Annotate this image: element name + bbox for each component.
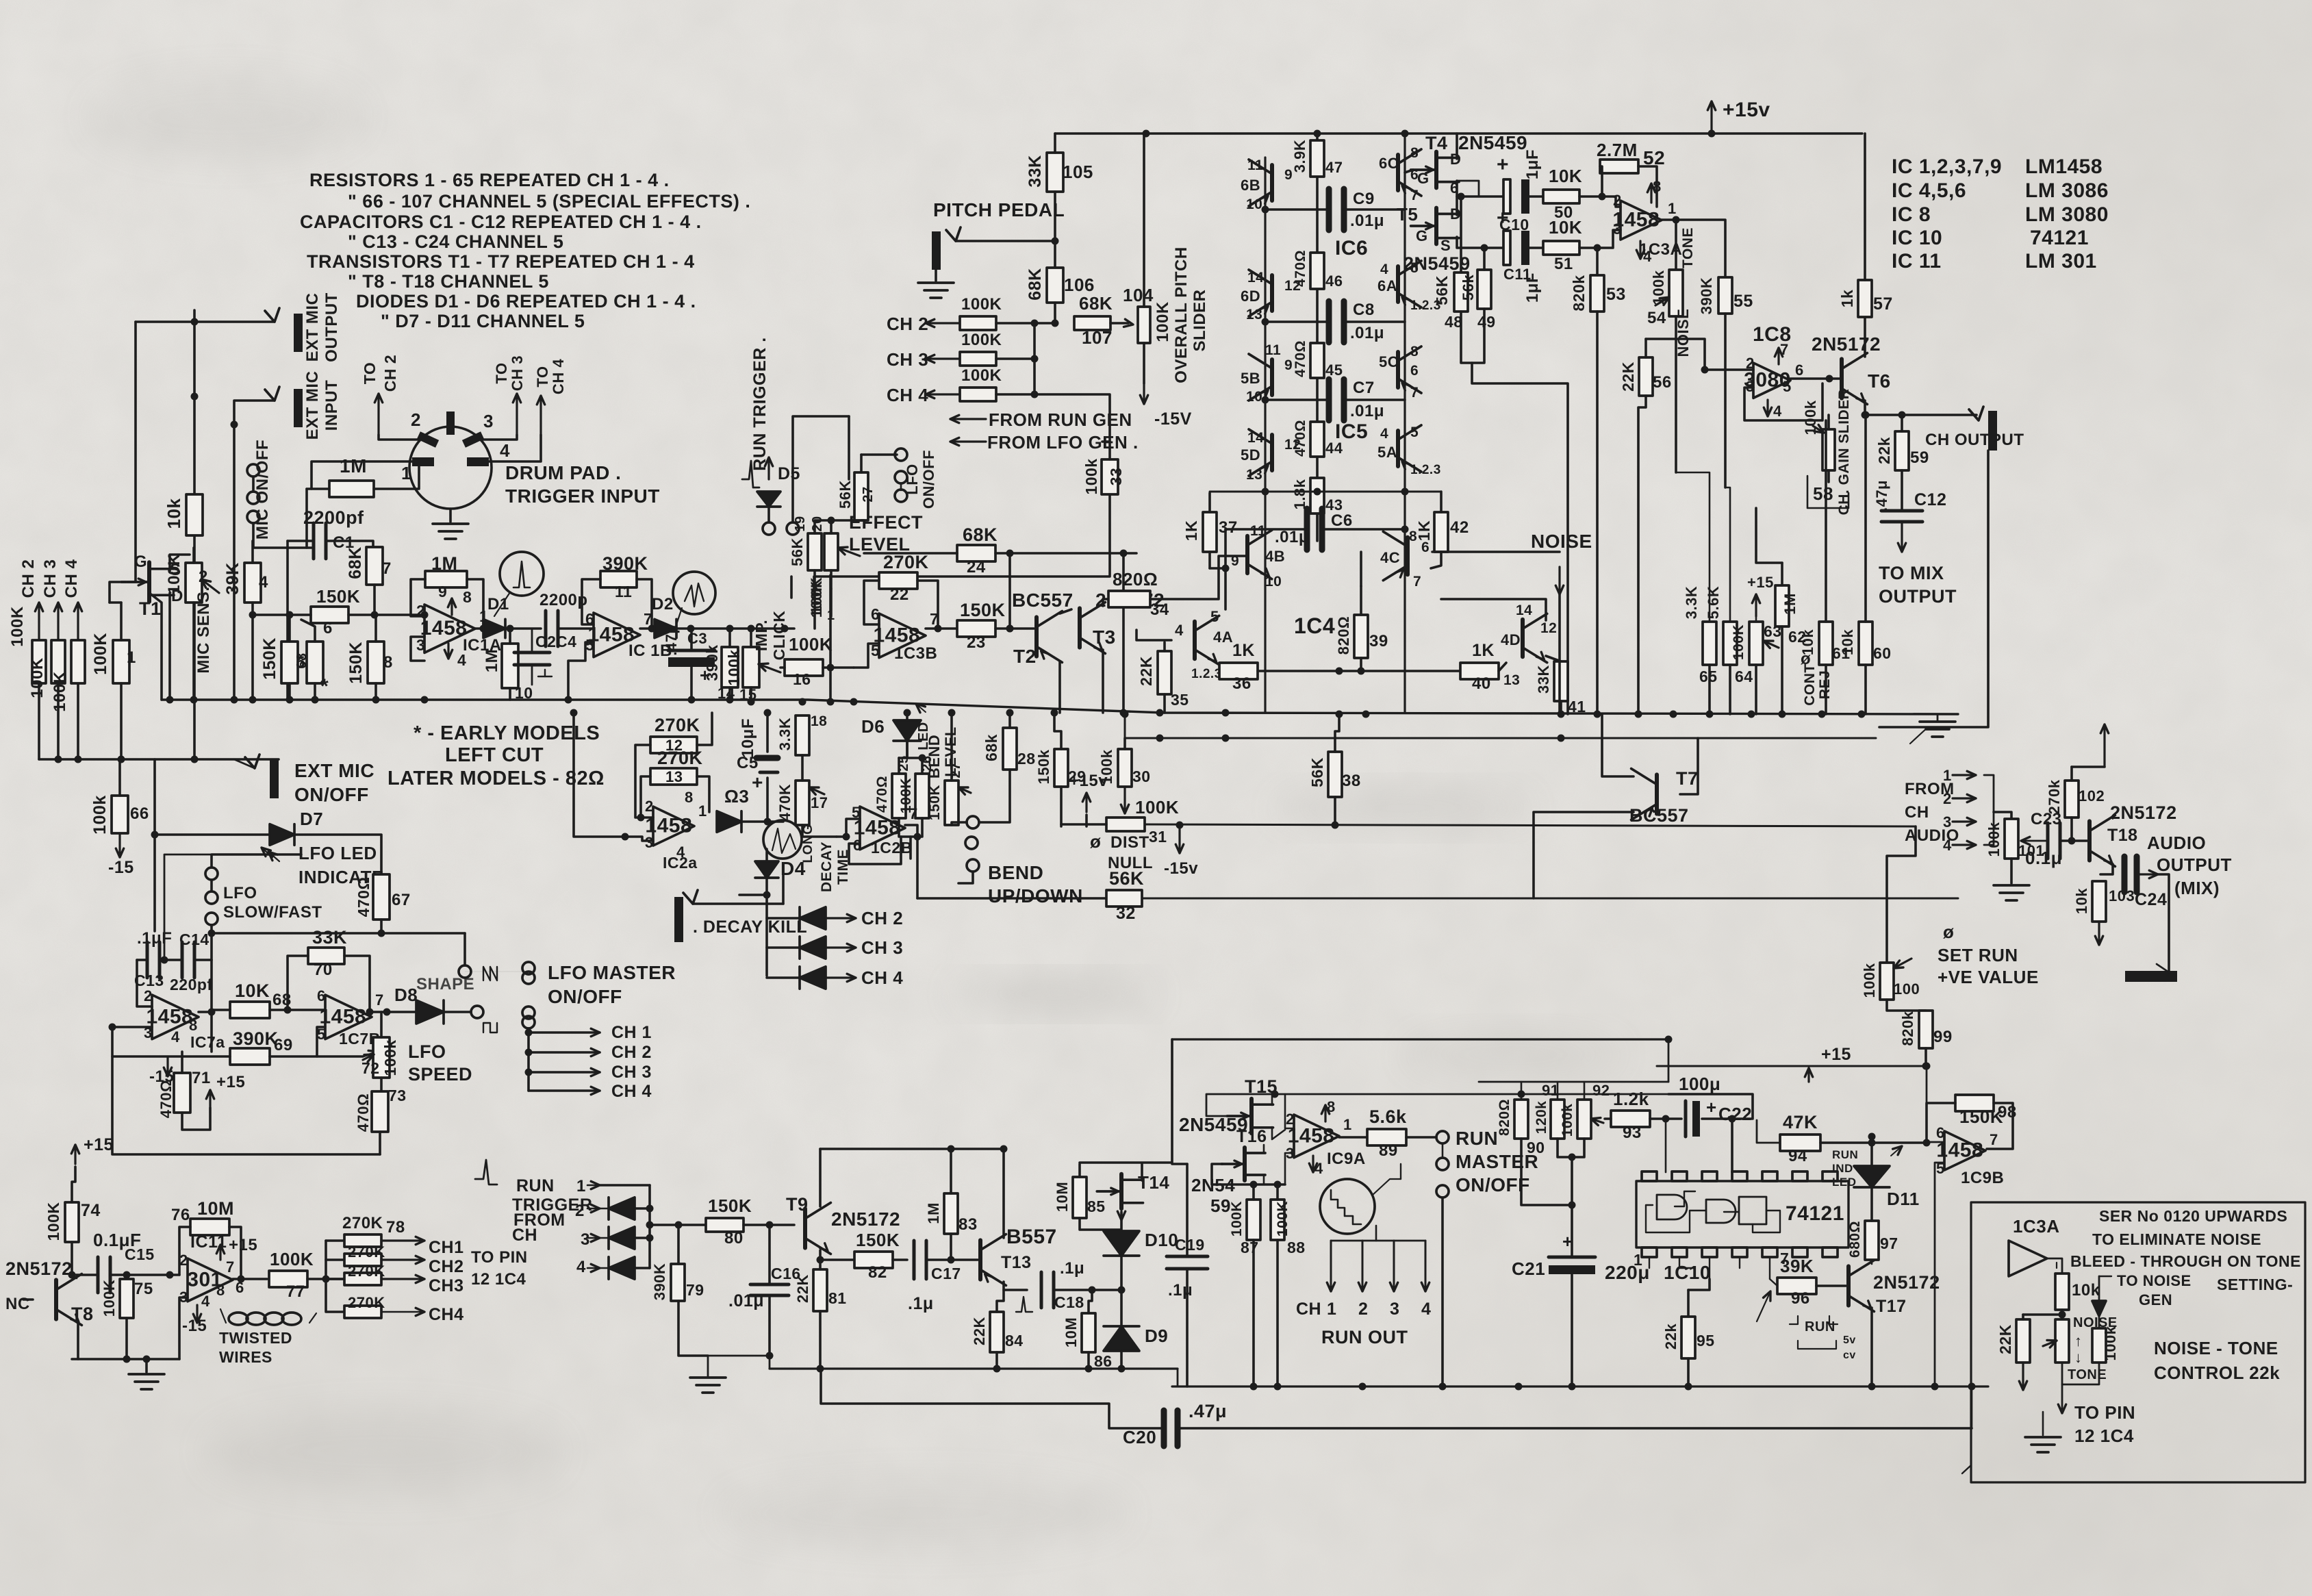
svg-text:100K: 100K — [1154, 301, 1172, 342]
wire ch fanout — [527, 1028, 530, 1091]
wire T16 — [1263, 1145, 1265, 1153]
svg-text:94: 94 — [1788, 1147, 1807, 1165]
wire 82 out — [893, 1258, 907, 1261]
resistor 22K 81 — [813, 1269, 827, 1311]
svg-text:T5: T5 — [1397, 204, 1418, 225]
svg-text:5: 5 — [585, 636, 594, 654]
wire 390K11 loop — [582, 579, 600, 624]
pot 100K 54 tone — [1669, 270, 1683, 316]
svg-text:IC7a: IC7a — [190, 1033, 225, 1051]
resistor 150K 8 — [368, 642, 384, 683]
svg-text:0.1μ: 0.1μ — [2025, 848, 2062, 868]
capacitor C9 — [1326, 189, 1332, 230]
svg-text:IC9A: IC9A — [1327, 1150, 1366, 1168]
svg-text:C24: C24 — [2135, 890, 2167, 909]
wire 102 — [2070, 767, 2073, 781]
wire 77 out — [307, 1278, 344, 1280]
wire D10 down — [1120, 1256, 1123, 1326]
op-amp IC7B — [325, 995, 372, 1039]
resistor 150K 6 — [311, 607, 348, 623]
transistor 6D — [1270, 275, 1274, 311]
svg-text:49: 49 — [1477, 313, 1496, 331]
svg-text:100k: 100k — [1861, 963, 1878, 998]
svg-text:13: 13 — [665, 768, 683, 785]
wire IC1B in5 — [568, 642, 594, 700]
wire IC3B out — [926, 627, 957, 630]
svg-text:66: 66 — [130, 805, 149, 823]
diode D11 run ind led — [1854, 1166, 1890, 1187]
svg-text:LM 301: LM 301 — [2025, 250, 2097, 273]
resistor 39K 4 — [244, 563, 261, 603]
pot 100K 104 overall pitch — [1138, 307, 1150, 343]
svg-text:100K: 100K — [51, 671, 69, 712]
transistor 4D — [1521, 620, 1525, 657]
svg-text:.47µ: .47µ — [663, 624, 680, 655]
svg-text:ON/OFF: ON/OFF — [548, 986, 622, 1007]
svg-text:G: G — [134, 553, 147, 571]
resistor 1M mic — [329, 481, 374, 497]
svg-text:100: 100 — [1894, 980, 1920, 998]
svg-text:5B: 5B — [1241, 370, 1260, 387]
wire 41 down — [1560, 701, 1562, 714]
svg-text:B557: B557 — [1006, 1226, 1057, 1248]
wire 39 top — [1360, 552, 1362, 586]
wire T18 emit — [2100, 864, 2113, 874]
wire T15 — [1271, 1094, 1273, 1105]
wire T1 source — [170, 555, 190, 571]
wire C20 line — [821, 1369, 1163, 1428]
wire 54 down — [1675, 316, 1677, 472]
svg-text:33K: 33K — [312, 927, 347, 948]
wire decay kill — [693, 902, 783, 905]
wire IC8 in — [1705, 368, 1753, 371]
resistor 100K 66 — [112, 796, 128, 833]
svg-text:10k: 10k — [2072, 1281, 2100, 1300]
jack ch output — [1969, 407, 1983, 420]
svg-text:37: 37 — [1219, 518, 1238, 537]
resistor 2.7M 52 — [1600, 160, 1638, 173]
capacitor C2 — [514, 651, 550, 655]
wire C24 out — [2139, 873, 2158, 875]
resistor 10M 86 — [1082, 1313, 1095, 1352]
svg-text:CH 4: CH 4 — [611, 1082, 652, 1101]
wire IC1B out — [640, 627, 652, 630]
svg-text:87: 87 — [1241, 1239, 1259, 1256]
wire IC9A out — [1339, 1136, 1367, 1139]
transistor 5A — [1396, 431, 1400, 466]
svg-text:4B: 4B — [1265, 548, 1285, 565]
svg-text:150K: 150K — [260, 637, 279, 680]
svg-text:1: 1 — [698, 802, 707, 820]
resistor 5.6k 89 — [1367, 1129, 1406, 1145]
IC 74121 gate A — [1657, 1195, 1687, 1219]
svg-text:5.6k: 5.6k — [1369, 1106, 1407, 1127]
wire left gate rail — [127, 322, 136, 582]
svg-text:T13: T13 — [1001, 1253, 1032, 1272]
svg-text:IC 1,2,3,7,9: IC 1,2,3,7,9 — [1892, 155, 2002, 178]
svg-text:+15: +15 — [216, 1073, 245, 1091]
svg-text:CAPACITORS C1 - C12 REPEATED: CAPACITORS C1 - C12 REPEATED CH 1 - 4 . — [300, 212, 702, 232]
wire T3 coll — [1103, 599, 1108, 606]
svg-text:TO ELIMINATE NOISE: TO ELIMINATE NOISE — [2092, 1230, 2261, 1248]
svg-text:1.8k: 1.8k — [1291, 479, 1308, 509]
svg-text:TONE: TONE — [2068, 1367, 2107, 1382]
pot 100K 63 — [1749, 622, 1763, 665]
svg-text:89: 89 — [1379, 1141, 1398, 1160]
capacitor C21 220u — [1549, 1256, 1595, 1259]
svg-text:820k: 820k — [1570, 275, 1588, 311]
svg-text:34: 34 — [1150, 600, 1169, 619]
svg-text:68: 68 — [294, 653, 309, 668]
svg-text:4A: 4A — [1213, 629, 1233, 646]
svg-text:6: 6 — [1795, 362, 1804, 379]
svg-text:ON/OFF: ON/OFF — [920, 450, 937, 509]
wire T17 coll — [1871, 1260, 1873, 1264]
svg-text:150K: 150K — [927, 785, 943, 820]
wire top rail — [1055, 132, 1862, 134]
svg-text:+15: +15 — [1821, 1045, 1851, 1064]
svg-text:71: 71 — [192, 1069, 211, 1087]
svg-text:22: 22 — [890, 585, 909, 604]
resistor 470 44 — [1310, 422, 1324, 457]
resistor 100K 75 — [120, 1279, 134, 1318]
svg-text:C19: C19 — [1175, 1236, 1205, 1254]
svg-text:1458: 1458 — [873, 624, 920, 646]
resistor 1K 40 — [1460, 663, 1499, 679]
wire 1M9 loop — [411, 579, 425, 615]
wire bottom rail2 left — [1177, 1369, 1179, 1386]
svg-text:10k: 10k — [164, 498, 184, 529]
svg-text:13: 13 — [1246, 467, 1262, 483]
svg-text:T4: T4 — [1425, 133, 1448, 153]
svg-text:1μF: 1μF — [1523, 273, 1542, 303]
wire 30 — [1123, 738, 1126, 749]
jack decay kill — [674, 897, 683, 942]
op-amp 1C3A box — [2009, 1241, 2047, 1276]
svg-text:220pf: 220pf — [170, 976, 213, 993]
paper smudge 3 — [205, 1410, 561, 1493]
wire T7 base — [1680, 738, 1698, 794]
resistor 1K 37 — [1203, 512, 1217, 552]
svg-text:39K: 39K — [223, 562, 242, 594]
svg-text:NC: NC — [5, 1295, 30, 1313]
svg-text:D6: D6 — [861, 716, 885, 737]
wire 150K6 — [253, 613, 311, 616]
svg-text:CH 1: CH 1 — [611, 1023, 652, 1042]
svg-text:-15: -15 — [108, 858, 134, 877]
svg-text:3: 3 — [581, 1230, 590, 1249]
wire 39 — [1360, 586, 1362, 615]
svg-text:C12: C12 — [1914, 490, 1946, 509]
svg-text:LFO LED: LFO LED — [298, 843, 377, 863]
svg-text:74121: 74121 — [1786, 1202, 1844, 1225]
svg-text:LFO: LFO — [408, 1041, 446, 1062]
svg-text:LFO: LFO — [904, 464, 921, 495]
svg-text:1C4: 1C4 — [1294, 613, 1335, 638]
svg-text:1M: 1M — [925, 1202, 942, 1224]
svg-text:470Ω: 470Ω — [355, 1093, 372, 1132]
resistor 1M 83 — [944, 1193, 958, 1234]
svg-text:T3: T3 — [1093, 626, 1116, 648]
svg-text:270K: 270K — [342, 1214, 383, 1232]
resistor 39K 96 — [1777, 1278, 1816, 1294]
wire 98 top — [1926, 1066, 1928, 1103]
pot 100K 15 — [743, 647, 759, 687]
wire IC7B in5 — [317, 1027, 325, 1056]
svg-text:59: 59 — [1910, 448, 1929, 467]
svg-text:↑: ↑ — [2074, 1332, 2083, 1350]
pot 150K 27b — [945, 781, 958, 825]
wire T7 emit — [1534, 812, 1634, 898]
svg-text:10M: 10M — [1063, 1317, 1080, 1347]
svg-text:D: D — [1450, 151, 1461, 168]
resistor 10K 51 — [1543, 241, 1579, 255]
svg-text:32: 32 — [1116, 904, 1136, 923]
svg-text:7: 7 — [375, 991, 384, 1009]
transistor 5B — [1270, 359, 1274, 395]
op-amp IC3A — [1621, 201, 1662, 240]
IC 74121 inner wires — [1646, 1205, 1706, 1232]
svg-text:75: 75 — [134, 1280, 153, 1298]
terminal D5 — [763, 522, 775, 535]
svg-text:4: 4 — [1421, 1300, 1431, 1319]
wire D7 out — [294, 835, 381, 874]
capacitor C10 1uF — [1503, 179, 1510, 214]
svg-text:20: 20 — [810, 516, 825, 531]
resistor 1.2k 93 — [1611, 1111, 1650, 1127]
ground T8 — [129, 1373, 164, 1376]
wire 470-71 — [181, 1052, 183, 1073]
svg-text:+15: +15 — [84, 1135, 114, 1154]
wire 820-34 — [1150, 556, 1247, 599]
IC 74121 body — [1636, 1181, 1849, 1247]
svg-text:MIC SENS.: MIC SENS. — [194, 586, 213, 673]
svg-text:TWISTED: TWISTED — [219, 1329, 292, 1347]
svg-text:10μF: 10μF — [739, 718, 757, 758]
resistor 820k 99 — [1919, 1011, 1933, 1048]
svg-text:820k: 820k — [1899, 1011, 1916, 1046]
svg-text:100k: 100k — [1082, 458, 1100, 494]
wire IC2a in3 — [625, 837, 653, 841]
wire run master down — [1441, 1198, 1444, 1386]
IC 74121 top pins — [1642, 1171, 1657, 1181]
svg-text:100k: 100k — [2102, 1326, 2119, 1360]
wire eff level top — [848, 416, 850, 479]
svg-text:1458: 1458 — [420, 617, 468, 639]
svg-text:1C10: 1C10 — [1664, 1262, 1711, 1283]
diode D10 — [1104, 1231, 1139, 1256]
svg-text:12 1C4: 12 1C4 — [471, 1270, 526, 1289]
wire bottom-left rail — [39, 758, 279, 761]
svg-text:100K: 100K — [808, 581, 825, 618]
transistor 6C — [1396, 155, 1400, 190]
svg-text:104: 104 — [1123, 285, 1154, 305]
transistor 6B — [1270, 165, 1274, 201]
wire C1 — [288, 540, 314, 542]
svg-text:(MIX): (MIX) — [2174, 878, 2220, 898]
wire T14 — [1141, 1164, 1143, 1180]
svg-text:18: 18 — [811, 713, 827, 729]
wire D2 out — [676, 627, 794, 630]
svg-text:8: 8 — [1410, 344, 1419, 359]
svg-text:CH 4: CH 4 — [887, 385, 928, 405]
IC 74121 bottom pins — [1642, 1247, 1657, 1257]
svg-text:79: 79 — [686, 1281, 704, 1299]
resistor 100K 33 — [1102, 459, 1118, 494]
wire 55 down — [1724, 314, 1727, 487]
svg-text:LONG: LONG — [801, 824, 815, 863]
resistor 22K 56 — [1639, 357, 1653, 396]
svg-text:33K: 33K — [1535, 665, 1552, 694]
svg-text:150K: 150K — [960, 600, 1006, 620]
svg-text:1: 1 — [1327, 1300, 1336, 1319]
svg-text:102: 102 — [2079, 787, 2105, 805]
wire T1 gate — [110, 582, 126, 603]
wire pot104 — [1143, 134, 1145, 307]
wire 4A base — [1136, 630, 1171, 640]
diode D4 — [755, 861, 778, 878]
svg-text:C14: C14 — [179, 930, 209, 948]
wire 62 top — [1756, 508, 1782, 563]
svg-text:680Ω: 680Ω — [1847, 1221, 1863, 1258]
svg-text:DIST: DIST — [1110, 833, 1149, 852]
svg-text:D8: D8 — [394, 985, 418, 1005]
svg-text:6: 6 — [323, 619, 333, 637]
svg-text:+VE VALUE: +VE VALUE — [1938, 967, 2039, 987]
wire run top rail2 drop — [1080, 1039, 1172, 1163]
svg-text:22K: 22K — [1619, 362, 1637, 392]
svg-text:3: 3 — [1390, 1300, 1399, 1319]
svg-text:PITCH PEDAL: PITCH PEDAL — [933, 199, 1065, 220]
svg-text:56K: 56K — [837, 480, 854, 509]
diode runtrig 3 — [600, 1237, 609, 1239]
svg-text:7: 7 — [1413, 574, 1421, 590]
svg-text:100K: 100K — [1229, 1201, 1245, 1237]
svg-text:9: 9 — [438, 583, 447, 600]
svg-text:33: 33 — [1107, 468, 1125, 486]
svg-text:CH 4: CH 4 — [62, 559, 81, 598]
wire T13 coll — [1002, 1149, 1005, 1238]
svg-text:76: 76 — [171, 1206, 190, 1224]
wire main bus — [162, 700, 1958, 714]
wire T8 bottom rail — [72, 1358, 179, 1360]
wire D1 out — [505, 627, 541, 630]
resistor 270K 13 — [650, 768, 697, 785]
svg-text:AUDIO: AUDIO — [2147, 833, 2206, 853]
svg-text:10K: 10K — [1549, 217, 1582, 238]
wire 80 out — [744, 1224, 794, 1226]
svg-text:64: 64 — [1735, 668, 1753, 685]
wire 150K23 out — [995, 627, 1034, 630]
svg-text:S: S — [1440, 237, 1451, 254]
svg-text:6: 6 — [853, 837, 862, 854]
wire C22 out — [1702, 1119, 1732, 1172]
wire C23 out — [2061, 839, 2087, 842]
svg-text:.01μ: .01μ — [1350, 402, 1384, 420]
wire IC2B loop — [849, 837, 901, 864]
svg-text:2N5172: 2N5172 — [2110, 802, 2177, 823]
resistor 390K 69 — [230, 1048, 270, 1065]
svg-text:IND: IND — [1832, 1162, 1853, 1175]
svg-text:8: 8 — [685, 789, 694, 806]
svg-text:BLEED - THROUGH ON TONE: BLEED - THROUGH ON TONE — [2070, 1252, 2301, 1270]
pot noise-tone — [2055, 1319, 2069, 1363]
svg-text:36: 36 — [1232, 674, 1252, 693]
capacitor C1 2200pf — [312, 523, 316, 559]
svg-text:54: 54 — [1647, 309, 1666, 327]
paper smudge 5 — [89, 75, 363, 157]
capacitor C14 220pf — [181, 942, 184, 978]
svg-text:1C3A: 1C3A — [2013, 1216, 2059, 1237]
svg-text:+: + — [1706, 1097, 1717, 1117]
svg-text:35: 35 — [1171, 691, 1189, 709]
arrow 96 hint — [1757, 1291, 1770, 1321]
pot 100K 100 — [1880, 963, 1894, 1000]
resistor 120K 91 — [1551, 1100, 1564, 1139]
svg-text:9: 9 — [1231, 553, 1239, 569]
svg-text:LFO MASTER: LFO MASTER — [548, 962, 676, 983]
DIN pin4 mark — [467, 457, 489, 466]
svg-text:1M: 1M — [340, 455, 367, 477]
transistor 4A — [1193, 622, 1197, 659]
svg-text:10K: 10K — [1549, 166, 1582, 186]
svg-text:470K: 470K — [776, 784, 793, 822]
wire CH2 column — [38, 603, 40, 685]
svg-text:100K: 100K — [961, 295, 1002, 314]
op-amp IC7a — [152, 995, 199, 1039]
wire audio bracket — [1984, 775, 1994, 845]
wire C4 to IC1B — [558, 627, 594, 630]
arrow to noise gen — [2098, 1276, 2100, 1301]
svg-text:14: 14 — [1247, 430, 1264, 446]
svg-text:74: 74 — [81, 1201, 101, 1220]
resistor 1.8K 43 — [1310, 478, 1324, 514]
resistor 150K 5 — [281, 642, 298, 683]
svg-text:CH 3: CH 3 — [41, 559, 60, 598]
wire ch3 row — [996, 323, 1034, 359]
transistor T3 npn — [1078, 608, 1082, 647]
svg-text:74121: 74121 — [2030, 227, 2089, 249]
svg-text:TO: TO — [493, 362, 510, 383]
resistor 820 39 — [1354, 615, 1368, 658]
resistor 56K 48 — [1454, 273, 1468, 312]
svg-text:10: 10 — [1246, 389, 1262, 405]
svg-text:LM 3080: LM 3080 — [2025, 203, 2109, 226]
resistor 270K 78d — [344, 1306, 381, 1318]
wire C10 left link — [1457, 181, 1503, 197]
wire T3 emitter — [1102, 650, 1104, 713]
svg-text:103: 103 — [2109, 887, 2135, 904]
wire rail join — [769, 1356, 771, 1369]
wire 33 top — [1108, 442, 1111, 459]
transistor T15 fet — [1249, 1099, 1254, 1133]
svg-text:LEFT CUT: LEFT CUT — [445, 744, 544, 766]
jack J1 ext mic output — [294, 314, 303, 352]
wire bus2 — [1125, 714, 1876, 738]
wire switch to 1M — [253, 523, 312, 548]
resistor 470 46 — [1310, 253, 1324, 289]
wire T6 emit — [1864, 401, 1866, 415]
wire 38 — [1335, 714, 1339, 752]
svg-text:53: 53 — [1606, 285, 1626, 304]
svg-text:+15: +15 — [1747, 574, 1774, 591]
svg-text:DIODES D1 - D6 REPEATED C: DIODES D1 - D6 REPEATED CH 1 - 4 . — [356, 291, 696, 312]
wire IC9A in — [1285, 1094, 1294, 1128]
wire 150K5 — [288, 615, 291, 642]
svg-text:CH3: CH3 — [429, 1276, 464, 1295]
wire 390K69 — [112, 1055, 230, 1058]
wire IC9B in5 — [1935, 1163, 1944, 1386]
